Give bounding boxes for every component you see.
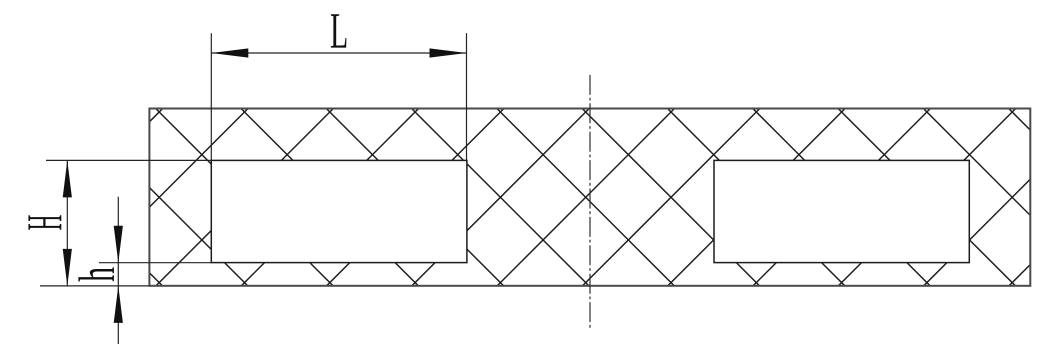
arrow h lower	[114, 286, 123, 323]
dimension h line	[117, 197, 119, 344]
arrow L right	[430, 48, 467, 57]
hatch cross-section	[149, 109, 1030, 286]
arrow h upper	[114, 226, 123, 263]
extension line body-bottom left	[40, 285, 149, 287]
arrow L left	[211, 48, 248, 57]
hole left	[211, 160, 467, 262]
dimension L line	[211, 52, 466, 54]
extension line hole-top left	[46, 159, 211, 161]
arrow H down	[63, 249, 72, 286]
centerline	[589, 75, 591, 331]
hole right	[714, 160, 969, 262]
label L	[331, 14, 346, 47]
extension line hole-bottom left	[99, 262, 211, 264]
label H	[28, 215, 61, 229]
extension line L left	[210, 33, 212, 160]
extension line L right	[466, 33, 468, 160]
arrow H up	[63, 160, 72, 197]
body outline	[149, 109, 1030, 286]
label h	[78, 267, 114, 281]
dimension H line	[66, 160, 68, 286]
